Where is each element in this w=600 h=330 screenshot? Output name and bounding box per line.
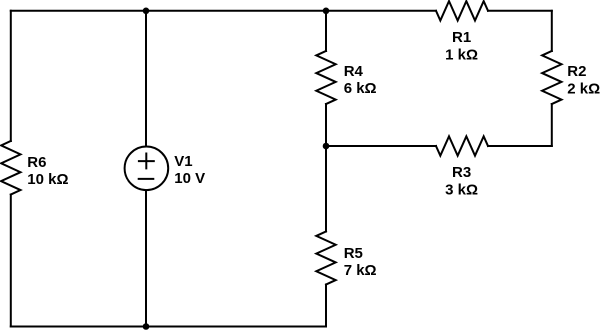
svg-text:R6: R6 [27,154,46,171]
V1 plus sign [139,154,154,169]
junction dot bottom V1 node [143,323,150,330]
svg-text:R4: R4 [344,63,364,80]
wire left side lower [10,195,12,327]
svg-text:10 kΩ: 10 kΩ [27,171,68,188]
voltage source V1 circle [125,147,169,191]
wire bottom-left segment [11,326,146,328]
svg-text:7 kΩ: 7 kΩ [344,262,377,279]
wire bottom-right segment [146,326,326,328]
resistor R3 [436,136,488,155]
svg-text:R5: R5 [344,245,363,262]
svg-text:6 kΩ: 6 kΩ [344,80,377,97]
wire V1 top lead [145,11,147,147]
svg-text:2 kΩ: 2 kΩ [567,80,600,97]
junction dot top R4 node [323,8,330,15]
wire top-middle segment [146,10,326,12]
svg-text:R3: R3 [452,164,471,181]
junction dot middle node [323,143,330,150]
svg-text:3 kΩ: 3 kΩ [445,181,478,198]
wire R3 to right corner [488,145,552,147]
junction dot top V1 node [143,8,150,15]
wire R1 to top-right corner [488,10,552,12]
wire R2 bottom lead [551,104,553,146]
wire R2 top lead [551,11,553,51]
wire R4 top lead [325,11,327,51]
resistor R5 [316,232,335,285]
wire left side upper [10,11,12,141]
resistor R4 [316,51,335,104]
resistor R2 [542,51,561,104]
wire R4 to R5 through middle junction [325,104,327,232]
resistor R1 [436,1,488,20]
svg-text:R2: R2 [567,63,586,80]
wire R5 bottom lead [325,285,327,327]
resistor R6 [1,141,20,195]
wire top junction to R1 [326,10,436,12]
wire middle junction to R3 [326,145,436,147]
svg-text:R1: R1 [452,29,471,46]
V1 minus sign [139,178,154,180]
wire top-left segment [11,10,146,12]
svg-text:1 kΩ: 1 kΩ [445,46,478,63]
wire V1 bottom lead [145,190,147,326]
svg-text:V1: V1 [174,153,192,170]
svg-text:10 V: 10 V [174,170,205,187]
